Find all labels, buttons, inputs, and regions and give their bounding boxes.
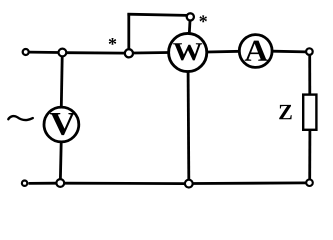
wire: down to load Z [308, 55, 311, 95]
wire: bottom rail right segment [193, 181, 306, 184]
load Z (impedance box) [303, 95, 316, 130]
label: asterisk at node N2 [199, 15, 207, 22]
wire: node N2 down to wattmeter top [188, 21, 191, 34]
wire: Z down to bottom-right node [308, 130, 311, 179]
wire: wattmeter bottom down to J3 [187, 72, 190, 179]
node N4 (bottom-right corner) [306, 179, 313, 186]
node N2 (wattmeter voltage coil, marked *) [187, 13, 194, 20]
wattmeter W (meter circle) [169, 33, 207, 71]
wire: A to top-right node [272, 50, 306, 54]
wire: top-left terminal to junction J1 [29, 51, 60, 54]
wire: bottom rail left segment [29, 182, 57, 185]
label Z [279, 105, 292, 119]
wire: W to ammeter A [207, 50, 240, 54]
terminal T1 (top-left) [23, 49, 29, 55]
terminal T2 (bottom-left) [22, 181, 27, 186]
ammeter A (meter circle) [239, 35, 272, 68]
wire: node N1 up (voltage-coil loop, vertical) [127, 13, 130, 49]
wire: node N1 to wattmeter W [134, 51, 170, 54]
label: AC source tilde [8, 116, 33, 120]
node J3 (wattmeter return, bottom) [185, 180, 193, 188]
label A [245, 41, 268, 61]
wire: junction J1 to node N1 [67, 51, 126, 54]
wire: bottom rail middle segment [65, 182, 185, 185]
label W [173, 43, 202, 60]
wire: voltmeter V down to J2 [59, 142, 63, 179]
voltmeter V (meter circle) [44, 107, 79, 142]
label: asterisk at node N1 [109, 38, 117, 45]
label V [50, 113, 76, 135]
wire: voltage-coil loop, horizontal top [127, 14, 186, 15]
wire: J1 down to voltmeter V [60, 57, 64, 107]
node J1 (voltmeter tap, top) [59, 49, 67, 57]
node J2 (voltmeter tap, bottom) [56, 179, 64, 187]
node N1 (wattmeter current coil in, marked *) [125, 49, 133, 57]
node N3 (top-right corner) [306, 48, 313, 55]
